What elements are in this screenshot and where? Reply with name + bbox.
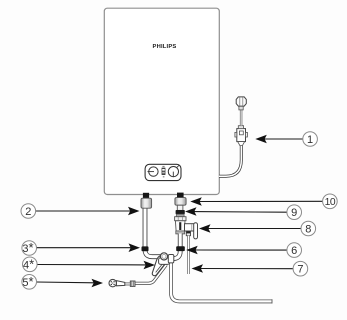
plug stem — [240, 110, 242, 126]
callout 5* — [37, 281, 95, 284]
right pipe nut — [175, 198, 186, 206]
relief valve hex flange — [175, 217, 186, 221]
svg-text:6: 6 — [291, 245, 297, 257]
plug hex cap — [236, 97, 246, 106]
callout 1 — [264, 138, 303, 140]
callout 6 — [195, 249, 287, 251]
plug body — [237, 129, 246, 142]
plug hex cap neck — [239, 106, 243, 110]
right pipe union ring (item 6) — [176, 246, 185, 251]
svg-text:10: 10 — [325, 197, 336, 208]
relief valve body — [175, 221, 185, 231]
callout 2 — [36, 210, 131, 212]
left pipe union ring (item 3*) — [142, 246, 149, 251]
plug collar — [238, 126, 243, 129]
svg-text:2: 2 — [25, 206, 31, 218]
water heater unit — [104, 8, 219, 194]
callout 9 — [194, 211, 287, 214]
drain pipe from spout — [187, 236, 190, 274]
mixer valve lever (item 4*) — [152, 255, 167, 276]
left pipe (cold inlet) — [145, 206, 161, 257]
relief valve gray band — [176, 214, 184, 217]
center display — [162, 168, 166, 175]
relief valve neck (item 9 target) — [177, 205, 183, 210]
svg-text:8: 8 — [305, 224, 311, 236]
right pipe stub (item 10 target) — [177, 193, 184, 199]
svg-text:7: 7 — [297, 264, 303, 276]
plug bottom taper — [238, 142, 245, 146]
callout 3* — [37, 247, 132, 249]
plug inner window — [239, 131, 243, 135]
outlet tee fitting — [168, 255, 174, 263]
svg-text:4*: 4* — [23, 256, 34, 271]
outlet test lever — [194, 223, 198, 239]
callout 4* — [37, 264, 146, 266]
left knob — [149, 167, 158, 176]
svg-text:9: 9 — [291, 207, 297, 219]
mixer valve bonnet circle — [160, 253, 167, 260]
outlet spout — [186, 231, 190, 236]
mixer valve body — [159, 258, 170, 265]
relief valve bottom band — [176, 231, 185, 234]
svg-text:5*: 5* — [22, 274, 33, 289]
power cord — [219, 145, 241, 176]
svg-text:PHILIPS: PHILIPS — [153, 44, 177, 50]
right pipe below valve — [170, 234, 181, 259]
callout 7 — [200, 268, 293, 270]
shower hose — [135, 265, 166, 284]
shower head (item 5*) — [130, 281, 135, 286]
relief valve black band — [176, 210, 185, 214]
callout 10 — [199, 200, 323, 202]
outlet down pipe — [171, 263, 272, 302]
left pipe nut (item 2) — [141, 198, 152, 208]
control panel — [145, 164, 181, 180]
right knob — [168, 167, 178, 177]
plug side tabs — [235, 132, 237, 137]
svg-text:1: 1 — [307, 134, 313, 146]
relief valve outlet arm (item 8) — [185, 224, 195, 231]
svg-text:3*: 3* — [22, 240, 33, 255]
callout 8 — [208, 228, 302, 230]
left pipe stub — [143, 193, 149, 199]
